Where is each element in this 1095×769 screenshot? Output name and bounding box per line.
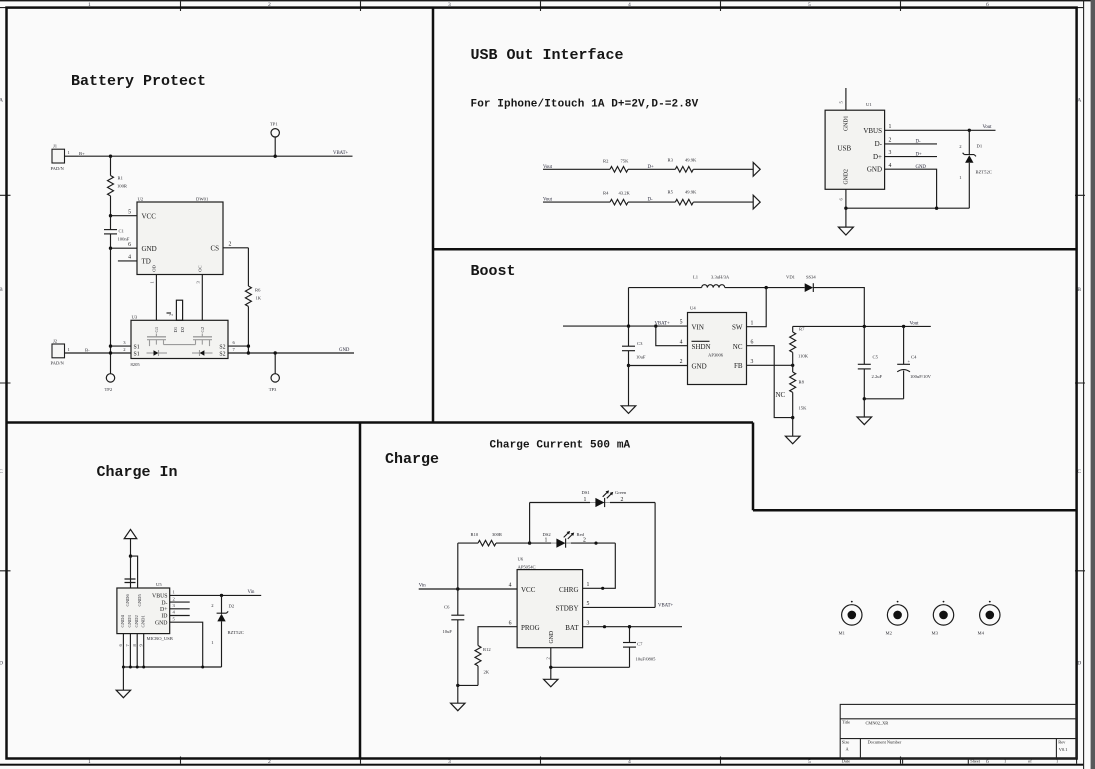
node CHRG wire dot	[601, 587, 604, 590]
resistor R1 100R	[110, 156, 112, 175]
charger U6 AP5054C	[517, 570, 583, 648]
node SW junction on top wire	[765, 286, 768, 289]
capacitor C4 100uF/10V electrolytic	[903, 326, 905, 364]
node U2GND vertical joints	[110, 248, 112, 373]
mounting hole M2	[887, 605, 907, 625]
node J1/R1 junction	[109, 155, 112, 158]
svg-text:USB: USB	[838, 145, 852, 153]
resistor R4 43.2K	[610, 199, 628, 205]
wire B+ net to VBAT+	[78, 155, 353, 157]
node TP1 junction	[274, 155, 277, 158]
wire USB ground bus	[846, 207, 969, 209]
svg-text:1: 1	[545, 537, 548, 543]
svg-text:GND: GND	[916, 165, 927, 170]
svg-text:D2: D2	[229, 604, 235, 609]
svg-text:PAD/N: PAD/N	[51, 361, 65, 366]
mounting hole M3	[933, 605, 953, 625]
svg-text:110K: 110K	[798, 354, 809, 359]
svg-text:GND3: GND3	[127, 615, 132, 628]
mounting hole M1	[842, 605, 862, 625]
U4 pin 4 SHDN wire	[656, 326, 688, 346]
capacitor C7 10uF/0805	[629, 627, 631, 643]
resistor R8 15K	[792, 365, 794, 372]
svg-text:BAT: BAT	[565, 624, 579, 632]
svg-text:3: 3	[889, 150, 892, 156]
svg-text:Rev: Rev	[1058, 739, 1066, 744]
window right gray strip	[1091, 0, 1095, 769]
svg-text:D: D	[0, 661, 3, 667]
wire to arrow (row D+)	[693, 168, 753, 170]
svg-text:M4: M4	[978, 631, 985, 636]
svg-text:D+: D+	[648, 165, 654, 170]
U5 pin 4 ID stub	[170, 615, 190, 617]
svg-text:USB Out Interface: USB Out Interface	[471, 47, 624, 64]
svg-text:C: C	[0, 469, 3, 475]
svg-text:J2: J2	[53, 338, 58, 343]
svg-text:B-: B-	[85, 348, 90, 353]
svg-text:D-: D-	[916, 140, 921, 145]
ground (C3)	[628, 366, 630, 406]
svg-text:PAD/N: PAD/N	[51, 166, 65, 171]
wire shield arrow stem	[130, 539, 132, 557]
U4 pin 6 NC wire	[747, 346, 793, 418]
diode D1 BZT52C zener	[968, 130, 970, 154]
connector J2	[52, 344, 65, 358]
diode D2 BZT52C zener	[221, 595, 223, 614]
svg-text:GND1: GND1	[141, 615, 146, 628]
node C3 junction	[627, 324, 630, 327]
svg-text:Vin: Vin	[248, 590, 256, 595]
svg-text:Vout: Vout	[910, 321, 920, 326]
svg-text:U1: U1	[866, 102, 872, 107]
window top edge	[0, 0, 1095, 1]
U4 pin 1 SW wire	[747, 288, 767, 327]
capacitor C6 10uF	[457, 589, 459, 615]
svg-text:G1: G1	[154, 326, 159, 332]
svg-text:D-: D-	[875, 140, 883, 148]
svg-text:1: 1	[584, 497, 587, 503]
svg-text:M3: M3	[932, 631, 939, 636]
svg-text:BZT52C: BZT52C	[976, 170, 992, 175]
svg-text:75K: 75K	[621, 158, 630, 163]
svg-text:GND2: GND2	[844, 169, 850, 185]
svg-text:GND: GND	[867, 166, 882, 174]
U5 pin 5 GND wire	[170, 622, 203, 667]
wire shield pin 9	[130, 556, 132, 588]
resistor R10 300R	[458, 542, 478, 544]
node TP3 junction	[274, 351, 277, 354]
divider boost bottom right	[753, 509, 1077, 512]
wire GND net	[248, 352, 354, 354]
divider boost right step vertical	[752, 423, 755, 511]
size cell divider	[859, 739, 861, 759]
rev cell divider	[1055, 739, 1057, 759]
svg-text:FB: FB	[734, 362, 743, 370]
wire TP3 lead	[274, 353, 276, 374]
svg-text:Charge In: Charge In	[97, 464, 178, 481]
svg-text:2.2uF: 2.2uF	[872, 374, 883, 379]
node U6 GND junction	[549, 666, 552, 669]
svg-text:MICRO_USB: MICRO_USB	[147, 636, 173, 641]
node VBUS/D1 junction	[968, 129, 971, 132]
svg-text:GND: GND	[142, 245, 157, 253]
svg-text:M2: M2	[886, 631, 893, 636]
svg-text:Title: Title	[842, 720, 850, 725]
svg-text:CHRG: CHRG	[559, 586, 578, 594]
U2 pin 6 GND wire	[111, 247, 138, 249]
svg-text:GND: GND	[692, 362, 707, 370]
svg-text:3: 3	[587, 620, 590, 626]
svg-text:Document Number: Document Number	[868, 739, 902, 744]
svg-text:2: 2	[621, 497, 624, 503]
svg-text:Size: Size	[842, 740, 850, 745]
svg-text:GND1: GND1	[844, 115, 850, 131]
arrow off-page D-	[753, 195, 760, 209]
resistor R6 1K	[247, 248, 249, 286]
svg-text:5: 5	[128, 209, 131, 215]
svg-text:Charge Current 500 mA: Charge Current 500 mA	[490, 440, 631, 452]
diode VD1 SS34	[805, 283, 813, 292]
svg-text:R4: R4	[603, 190, 609, 195]
svg-text:R8: R8	[799, 380, 805, 385]
U3 pin 7 wire	[228, 352, 248, 354]
svg-text:10uF/0805: 10uF/0805	[636, 656, 657, 661]
svg-text:GND2: GND2	[134, 615, 139, 628]
ground (USB section)	[845, 208, 847, 227]
transistor Q2 (right mosfet of U3)	[191, 334, 213, 357]
svg-text:Vout: Vout	[983, 125, 993, 130]
svg-text:C7: C7	[637, 641, 643, 646]
node DS2 wire dot	[594, 542, 597, 545]
U6 GND pin stem	[550, 648, 552, 680]
svg-text:2: 2	[889, 138, 892, 144]
svg-text:VCC: VCC	[142, 213, 157, 221]
svg-text:CS: CS	[210, 244, 219, 252]
svg-text:BZT52C: BZT52C	[228, 630, 244, 635]
U6 pin 6 PROG wire	[478, 627, 517, 646]
wire VD1 to Vout corner	[813, 288, 864, 327]
svg-text:R6: R6	[255, 288, 261, 293]
svg-text:C5: C5	[873, 355, 879, 360]
svg-text:4: 4	[889, 163, 892, 169]
testpoint TP2	[106, 374, 114, 382]
svg-text:GND6: GND6	[125, 594, 130, 607]
svg-text:Date: Date	[842, 759, 850, 764]
svg-text:5: 5	[680, 320, 683, 326]
connector U5 MICRO_USB	[117, 588, 170, 634]
J1 pin 1	[65, 155, 79, 157]
svg-text:U5: U5	[156, 582, 162, 587]
testpoint TP1	[271, 129, 279, 137]
bottom margin ticks	[181, 757, 901, 764]
wire C4 bottom to C5 bottom	[864, 398, 903, 400]
svg-text:OC: OC	[198, 265, 203, 271]
svg-text:2: 2	[229, 241, 232, 247]
right sheet edge line	[1083, 0, 1085, 769]
svg-text:2: 2	[583, 537, 586, 543]
arrow off-page D+	[753, 162, 760, 176]
svg-text:VD1: VD1	[786, 274, 796, 279]
node R8/NC junction	[791, 416, 794, 419]
U1 top pin 5 stub	[845, 88, 847, 110]
svg-text:D: D	[1077, 661, 1081, 667]
svg-text:OD: OD	[152, 264, 157, 271]
U3 pin 3 wire	[111, 345, 132, 347]
svg-text:SS34: SS34	[806, 274, 816, 279]
svg-text:of: of	[1028, 759, 1032, 764]
svg-text:C6: C6	[444, 604, 450, 609]
U3 pin 2 / J2 wire B-	[65, 352, 132, 354]
svg-text:D1: D1	[977, 144, 983, 149]
svg-text:D+: D+	[873, 153, 882, 161]
resistor R7 110K	[792, 326, 794, 332]
svg-text:U3: U3	[132, 314, 138, 319]
svg-text:1: 1	[1004, 759, 1006, 764]
svg-text:R7: R7	[799, 327, 805, 332]
testpoint TP3	[271, 374, 279, 382]
U5 pin 3 D+ stub	[170, 608, 190, 610]
small rect jumper above U3	[176, 300, 182, 320]
svg-text:R2: R2	[603, 158, 609, 163]
transistor Q1 (left mosfet of U3)	[147, 334, 192, 357]
svg-text:R10: R10	[471, 532, 479, 537]
svg-text:G2: G2	[200, 326, 205, 332]
ground (C5/C4)	[863, 399, 865, 417]
svg-text:S1: S1	[134, 352, 140, 358]
wire to arrow (row D-)	[693, 201, 753, 203]
node C3/GND pin junction	[627, 364, 630, 367]
svg-text:15K: 15K	[799, 406, 808, 411]
svg-text:6: 6	[986, 759, 989, 765]
connector U1 USB	[825, 110, 885, 189]
node R6/pin6 junction	[247, 344, 250, 347]
svg-text:U4: U4	[690, 306, 696, 311]
svg-text:5: 5	[808, 759, 811, 765]
svg-text:D-: D-	[648, 198, 653, 203]
svg-text:C3: C3	[637, 341, 643, 346]
svg-text:1: 1	[889, 124, 892, 130]
LED DS1 Green	[530, 502, 590, 504]
svg-text:C: C	[1077, 469, 1081, 475]
right inner frame line	[1076, 8, 1078, 764]
svg-text:GND: GND	[549, 631, 555, 644]
svg-text:ID: ID	[161, 614, 167, 620]
wire DS1 to STDBY vertical	[654, 503, 656, 608]
svg-text:NC: NC	[776, 391, 786, 399]
regulator U4 AP3006	[688, 313, 747, 385]
svg-text:R5: R5	[668, 189, 674, 194]
svg-text:C1: C1	[119, 229, 125, 234]
svg-text:TP3: TP3	[269, 387, 277, 392]
wire Vout to R4	[543, 201, 610, 203]
svg-text:GND4: GND4	[120, 615, 125, 628]
svg-text:SHDN: SHDN	[692, 343, 711, 351]
svg-text:V0.1: V0.1	[1059, 747, 1068, 752]
capacitor C1 100nF	[110, 216, 112, 230]
U2 pin 4 TD stub	[118, 260, 137, 262]
inductor L1 3.3uH/3A	[702, 285, 725, 288]
svg-text:10uF: 10uF	[443, 629, 453, 634]
divider horizontal mid	[7, 421, 754, 424]
svg-text:U2: U2	[138, 196, 144, 201]
svg-text:8205: 8205	[131, 362, 141, 367]
svg-text:1: 1	[88, 759, 91, 765]
wire top-left vertical	[628, 288, 630, 327]
svg-text:Sheet: Sheet	[970, 759, 981, 764]
svg-text:2: 2	[680, 359, 683, 365]
svg-text:VCC: VCC	[521, 586, 536, 594]
U4 pin 3 FB wire	[747, 364, 793, 366]
divider chargein/charge	[359, 423, 362, 759]
svg-text:4: 4	[680, 339, 683, 345]
U6 pin 5 STDBY wire	[583, 606, 656, 608]
svg-text:S2: S2	[219, 345, 225, 351]
svg-text:43.2K: 43.2K	[619, 190, 631, 195]
wire D+ mid	[628, 168, 675, 170]
node SHDN junction	[654, 324, 657, 327]
svg-text:6: 6	[751, 339, 754, 345]
date cell dividers	[903, 758, 969, 764]
resistor R12 2K	[475, 646, 481, 666]
U3 pin 6 wire	[228, 345, 248, 347]
wire C7 bottom to U6 GND	[551, 666, 630, 668]
svg-text:Green: Green	[615, 490, 627, 495]
U4 pin 2 GND wire	[629, 365, 688, 367]
ground (R8)	[792, 418, 794, 437]
ground (U6)	[544, 679, 558, 687]
resistor R2 75K	[610, 167, 628, 173]
svg-text:B: B	[1077, 287, 1081, 293]
title block outer	[840, 704, 1076, 758]
mosfet-pair U3 8205	[131, 320, 228, 358]
svg-text:4: 4	[628, 759, 631, 765]
svg-text:D+: D+	[916, 152, 922, 157]
left row ticks	[0, 195, 11, 571]
svg-text:VIN: VIN	[692, 323, 704, 331]
svg-text:Vin: Vin	[419, 584, 427, 589]
title block thick line above size row	[840, 738, 1076, 740]
svg-text:3.3uH/3A: 3.3uH/3A	[711, 274, 730, 279]
svg-text:S1: S1	[134, 345, 140, 351]
wire TP1 lead	[274, 137, 276, 156]
svg-text:4: 4	[509, 583, 512, 589]
svg-text:VBAT+: VBAT+	[658, 603, 674, 608]
svg-text:3: 3	[751, 359, 754, 365]
svg-text:49.9K: 49.9K	[685, 157, 697, 162]
svg-text:J1: J1	[53, 144, 58, 149]
svg-text:1: 1	[751, 320, 754, 326]
svg-text:VBAT+: VBAT+	[333, 151, 349, 156]
svg-text:SW: SW	[732, 324, 743, 332]
wire shield pin 10 jog	[131, 556, 138, 588]
svg-text:2K: 2K	[484, 669, 490, 674]
resistor R5 49.9K	[675, 199, 693, 205]
svg-text:AP3006: AP3006	[708, 353, 724, 358]
svg-text:TD: TD	[142, 258, 151, 266]
svg-text:10uF: 10uF	[636, 355, 646, 360]
node Vin/R10/C6 junction	[456, 587, 459, 590]
svg-text:1: 1	[1056, 759, 1058, 764]
U2 pin 5 VCC wire	[111, 215, 138, 217]
svg-text:4: 4	[128, 255, 131, 261]
svg-text:100R: 100R	[117, 183, 128, 188]
svg-text:A: A	[0, 98, 3, 104]
node D2 junction	[220, 594, 223, 597]
op-chip U2 DW01	[137, 202, 223, 275]
wire Vin to VCC	[419, 588, 517, 590]
svg-text:2: 2	[268, 759, 271, 765]
svg-text:L1: L1	[693, 274, 699, 279]
ground (C6/R12)	[451, 703, 465, 711]
svg-text:M1: M1	[839, 631, 846, 636]
svg-text:D1: D1	[173, 326, 178, 332]
svg-text:6: 6	[128, 242, 131, 248]
wire DS2 to CHRG	[583, 543, 616, 588]
node Vout/C5 junction	[863, 325, 866, 328]
svg-text:NC: NC	[733, 343, 743, 351]
wire charge-in ground bus	[123, 666, 221, 668]
svg-text:AP5054C: AP5054C	[518, 564, 536, 569]
svg-text:D2: D2	[180, 326, 185, 332]
wire R10 branch vertical	[457, 543, 459, 589]
svg-text:DW01: DW01	[196, 196, 209, 201]
right row ticks	[1075, 195, 1085, 571]
svg-text:3: 3	[448, 759, 451, 765]
node Vout/C4 junction	[902, 325, 905, 328]
wire L1 to VD1	[725, 287, 805, 289]
svg-text:100nF: 100nF	[118, 236, 130, 241]
svg-text:300R: 300R	[492, 532, 503, 537]
svg-text:R12: R12	[483, 647, 491, 652]
svg-text:A: A	[1077, 98, 1081, 104]
svg-text:GND: GND	[155, 620, 168, 626]
shield pin rotated numbers	[125, 579, 136, 583]
top margin ticks	[181, 1, 901, 11]
svg-text:For Iphone/Itouch 1A D+=2V,D-=: For Iphone/Itouch 1A D+=2V,D-=2.8V	[471, 99, 699, 111]
node FB junction	[791, 364, 794, 367]
LED DS2 Red	[530, 542, 551, 544]
svg-text:1: 1	[587, 582, 590, 588]
mounting hole M4	[980, 605, 1000, 625]
svg-text:100uF/10V: 100uF/10V	[910, 374, 932, 379]
node C6/R12 junction	[456, 684, 459, 687]
resistor R3 49.9K	[675, 167, 693, 173]
svg-text:S2: S2	[219, 352, 225, 358]
svg-text:1K: 1K	[256, 295, 262, 300]
ground (charge in)	[122, 667, 124, 690]
capacitor C3 10uF	[628, 326, 630, 346]
shield arrow symbol	[124, 529, 137, 538]
svg-text:CMN02_XR: CMN02_XR	[866, 721, 889, 726]
svg-text:STDBY: STDBY	[556, 605, 579, 613]
svg-text:6: 6	[509, 620, 512, 626]
wire VBAT+ to VIN	[563, 325, 688, 327]
capacitor C5 2.2uF	[863, 326, 865, 364]
svg-text:R3: R3	[668, 157, 674, 162]
svg-text:Battery Protect: Battery Protect	[71, 73, 206, 90]
svg-text:VBUS: VBUS	[152, 594, 167, 600]
node R10/DS2/DS1 junction	[528, 541, 531, 544]
svg-text:5: 5	[587, 601, 590, 607]
title block thick line above date row	[840, 757, 1076, 759]
svg-text:VBUS: VBUS	[863, 127, 882, 135]
U5 bottom shield pins 6-9	[122, 634, 124, 667]
svg-text:GND5: GND5	[137, 594, 142, 607]
svg-text:Boost: Boost	[471, 263, 516, 280]
divider usb/boost	[433, 248, 1077, 251]
svg-text:49.9K: 49.9K	[685, 189, 697, 194]
svg-text:TP2: TP2	[105, 387, 113, 392]
